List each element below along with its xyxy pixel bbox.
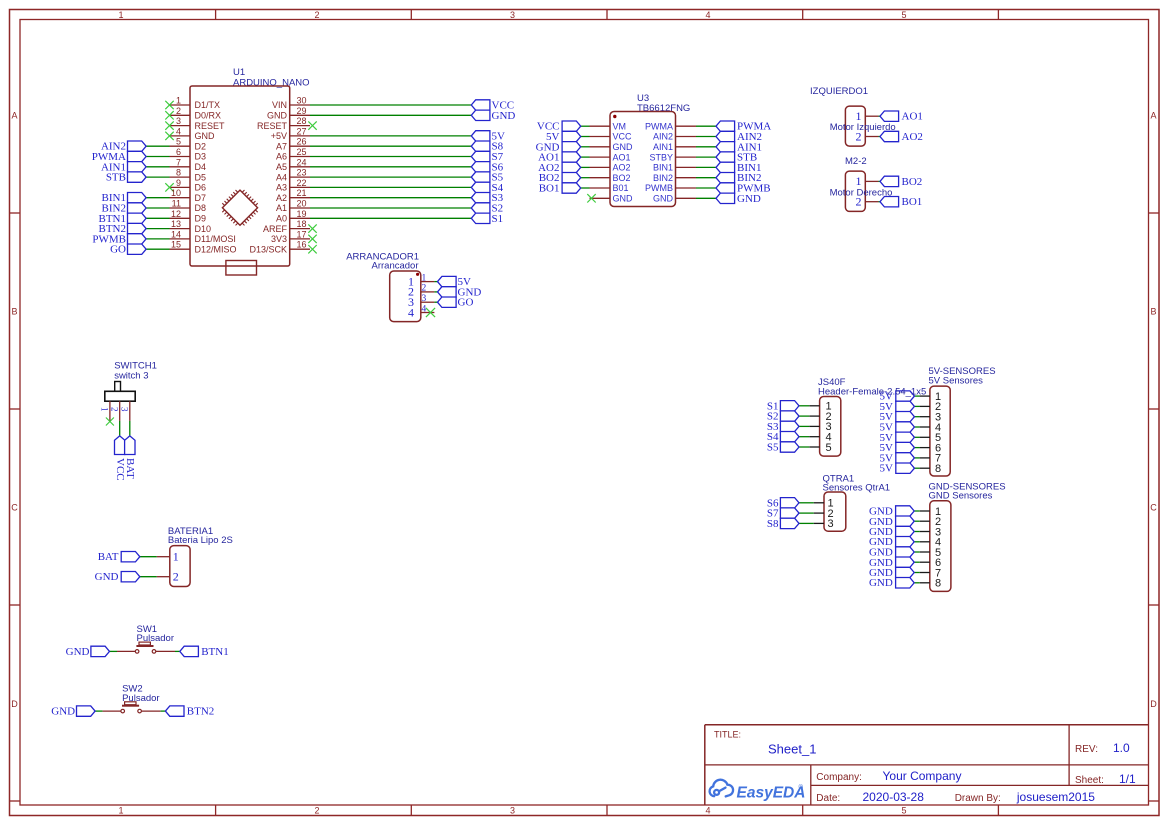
svg-text:BO2: BO2 [613, 173, 631, 183]
svg-text:Sheet_1: Sheet_1 [768, 742, 816, 757]
svg-text:D0/RX: D0/RX [195, 111, 222, 121]
svg-text:+5V: +5V [271, 131, 287, 141]
svg-text:Bateria Lipo 2S: Bateria Lipo 2S [168, 535, 233, 546]
svg-text:B: B [11, 307, 17, 317]
svg-text:D8: D8 [195, 203, 207, 213]
svg-text:5: 5 [901, 806, 906, 816]
svg-text:GO: GO [458, 297, 474, 309]
svg-text:A6: A6 [276, 152, 287, 162]
svg-text:RESET: RESET [195, 121, 226, 131]
svg-text:2: 2 [109, 407, 119, 412]
svg-text:7: 7 [176, 157, 181, 167]
svg-text:GND: GND [95, 571, 119, 583]
svg-text:GND: GND [195, 131, 216, 141]
svg-text:24: 24 [297, 157, 307, 167]
svg-text:22: 22 [297, 178, 307, 188]
svg-text:8: 8 [935, 578, 941, 590]
svg-text:PWMA: PWMA [645, 121, 673, 131]
svg-text:REV:: REV: [1075, 744, 1098, 755]
svg-text:D11/MOSI: D11/MOSI [195, 234, 236, 244]
svg-text:D5: D5 [195, 172, 207, 182]
svg-text:15: 15 [171, 240, 181, 250]
svg-text:josuesem2015: josuesem2015 [1016, 790, 1095, 804]
svg-text:3: 3 [510, 806, 515, 816]
svg-text:GND: GND [267, 111, 288, 121]
svg-text:12: 12 [171, 209, 181, 219]
svg-text:AO2: AO2 [613, 163, 631, 173]
svg-text:S1: S1 [492, 213, 504, 225]
svg-text:AREF: AREF [263, 224, 288, 234]
svg-text:STBY: STBY [649, 152, 673, 162]
svg-text:18: 18 [297, 219, 307, 229]
svg-text:1: 1 [118, 806, 123, 816]
svg-text:8: 8 [176, 168, 181, 178]
svg-text:®: ® [799, 784, 804, 791]
svg-text:25: 25 [297, 147, 307, 157]
svg-text:1: 1 [100, 407, 110, 412]
svg-text:ARDUINO_NANO: ARDUINO_NANO [233, 78, 310, 89]
svg-text:GND: GND [737, 193, 761, 205]
svg-text:BIN1: BIN1 [653, 163, 673, 173]
svg-text:1: 1 [856, 174, 862, 188]
svg-text:5V: 5V [880, 463, 894, 475]
svg-text:1: 1 [118, 10, 123, 20]
svg-text:AO1: AO1 [902, 111, 923, 123]
svg-text:PWMB: PWMB [645, 183, 673, 193]
svg-text:Motor Izquierdo: Motor Izquierdo [830, 122, 896, 133]
svg-text:4: 4 [705, 806, 710, 816]
svg-text:GND: GND [66, 646, 90, 658]
svg-text:4: 4 [408, 305, 414, 319]
svg-text:3: 3 [120, 407, 130, 412]
svg-text:Date:: Date: [816, 793, 840, 804]
svg-text:M2-2: M2-2 [845, 156, 867, 167]
svg-text:RESET: RESET [257, 121, 288, 131]
svg-text:A: A [11, 111, 17, 121]
svg-text:D6: D6 [195, 183, 207, 193]
svg-text:D13/SCK: D13/SCK [249, 244, 287, 254]
svg-text:GND: GND [492, 110, 516, 122]
svg-text:BTN1: BTN1 [201, 646, 229, 658]
svg-text:Sheet:: Sheet: [1075, 775, 1104, 786]
svg-text:D3: D3 [195, 152, 207, 162]
svg-text:AIN1: AIN1 [653, 142, 673, 152]
svg-text:11: 11 [172, 199, 181, 209]
svg-text:BIN2: BIN2 [653, 173, 673, 183]
svg-text:1.0: 1.0 [1113, 741, 1130, 755]
svg-text:10: 10 [171, 188, 181, 198]
svg-text:D10: D10 [195, 224, 212, 234]
svg-text:D1/TX: D1/TX [195, 100, 221, 110]
svg-text:S5: S5 [767, 442, 779, 454]
svg-text:2: 2 [176, 106, 181, 116]
svg-text:switch 3: switch 3 [114, 370, 148, 381]
svg-text:EasyEDA: EasyEDA [737, 785, 806, 802]
svg-text:5: 5 [825, 442, 831, 454]
svg-text:U1: U1 [233, 67, 245, 78]
svg-text:5: 5 [176, 137, 181, 147]
svg-text:4: 4 [705, 10, 710, 20]
svg-text:VCC: VCC [613, 132, 633, 142]
svg-text:VM: VM [613, 121, 627, 131]
svg-text:STB: STB [106, 172, 126, 184]
svg-text:9: 9 [176, 178, 181, 188]
svg-text:BO1: BO1 [902, 196, 923, 208]
svg-text:BAT: BAT [124, 458, 136, 479]
svg-text:13: 13 [171, 219, 181, 229]
svg-text:1: 1 [176, 96, 181, 106]
svg-text:BAT: BAT [98, 551, 119, 563]
svg-text:6: 6 [176, 147, 181, 157]
svg-text:Drawn By:: Drawn By: [955, 793, 1001, 804]
svg-text:Header-Female-2.54_1x5: Header-Female-2.54_1x5 [818, 387, 926, 398]
svg-text:23: 23 [297, 168, 307, 178]
svg-text:GND: GND [613, 194, 634, 204]
svg-text:3V3: 3V3 [271, 234, 287, 244]
svg-text:2020-03-28: 2020-03-28 [863, 790, 925, 804]
svg-text:28: 28 [297, 116, 307, 126]
svg-text:3: 3 [176, 116, 181, 126]
svg-text:A0: A0 [276, 214, 287, 224]
svg-text:A2: A2 [276, 193, 287, 203]
svg-text:14: 14 [171, 229, 181, 239]
svg-text:29: 29 [297, 106, 307, 116]
svg-text:26: 26 [297, 137, 307, 147]
svg-text:8: 8 [935, 463, 941, 475]
svg-text:Arrancador: Arrancador [372, 260, 419, 271]
svg-text:Your Company: Your Company [883, 769, 962, 783]
svg-text:IZQUIERDO1: IZQUIERDO1 [810, 86, 868, 97]
svg-text:GND: GND [51, 706, 75, 718]
svg-text:BTN2: BTN2 [187, 706, 215, 718]
svg-text:C: C [11, 503, 18, 513]
svg-text:D: D [11, 699, 18, 709]
svg-text:A5: A5 [276, 162, 287, 172]
svg-text:D12/MISO: D12/MISO [195, 244, 237, 254]
svg-text:A: A [1150, 111, 1156, 121]
svg-text:1: 1 [173, 550, 179, 564]
svg-text:2: 2 [173, 570, 179, 584]
svg-text:C: C [1150, 503, 1157, 513]
svg-text:2: 2 [314, 806, 319, 816]
svg-text:B01: B01 [613, 183, 629, 193]
svg-text:20: 20 [297, 199, 307, 209]
svg-text:S8: S8 [767, 518, 779, 530]
svg-text:16: 16 [297, 240, 307, 250]
svg-text:5: 5 [901, 10, 906, 20]
svg-text:D: D [1150, 699, 1157, 709]
svg-text:A7: A7 [276, 141, 287, 151]
svg-text:1: 1 [856, 109, 862, 123]
svg-text:27: 27 [297, 126, 307, 136]
svg-text:D2: D2 [195, 141, 207, 151]
svg-text:D4: D4 [195, 162, 207, 172]
svg-text:VIN: VIN [272, 100, 287, 110]
svg-text:5V Sensores: 5V Sensores [929, 376, 984, 387]
svg-text:1/1: 1/1 [1119, 772, 1136, 786]
svg-text:21: 21 [297, 188, 307, 198]
svg-text:3: 3 [827, 518, 833, 530]
svg-text:17: 17 [297, 229, 307, 239]
svg-text:30: 30 [297, 96, 307, 106]
svg-text:A1: A1 [276, 203, 287, 213]
svg-text:BO2: BO2 [902, 176, 923, 188]
svg-text:AIN2: AIN2 [653, 132, 673, 142]
svg-text:2: 2 [314, 10, 319, 20]
svg-text:19: 19 [297, 209, 307, 219]
svg-text:GND: GND [869, 577, 893, 589]
svg-text:AO1: AO1 [613, 152, 631, 162]
svg-text:A3: A3 [276, 183, 287, 193]
svg-text:Motor Derecho: Motor Derecho [830, 187, 893, 198]
svg-text:GND: GND [653, 194, 674, 204]
svg-text:GND: GND [613, 142, 634, 152]
svg-text:B: B [1150, 307, 1156, 317]
svg-text:AO2: AO2 [902, 131, 923, 143]
svg-text:3: 3 [510, 10, 515, 20]
svg-text:A4: A4 [276, 172, 287, 182]
svg-text:GO: GO [110, 244, 126, 256]
svg-text:BO1: BO1 [539, 183, 560, 195]
svg-text:4: 4 [176, 126, 181, 136]
svg-text:TITLE:: TITLE: [714, 730, 741, 740]
svg-text:D7: D7 [195, 193, 207, 203]
svg-text:D9: D9 [195, 214, 207, 224]
svg-text:Company:: Company: [816, 772, 862, 783]
